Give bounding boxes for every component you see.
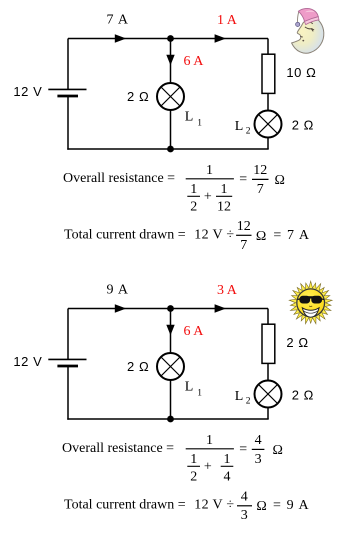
svg-text:1: 1: [206, 433, 213, 448]
current arrow 7 A: [115, 34, 126, 42]
svg-text:Ω: Ω: [275, 173, 285, 188]
svg-text:1: 1: [224, 452, 231, 467]
node A (top junction): [167, 35, 174, 42]
svg-text:= 7 A: = 7 A: [273, 228, 310, 243]
svg-text:1: 1: [221, 182, 228, 197]
wire right lower 2: [267, 408, 269, 420]
svg-text:=: =: [239, 442, 247, 457]
svg-text:Ω: Ω: [273, 443, 283, 458]
formula total current (bottom): [64, 489, 310, 523]
svg-text:7: 7: [257, 182, 264, 197]
label L1 (bottom circuit): [185, 380, 202, 399]
svg-text:2: 2: [246, 397, 251, 407]
svg-text:Total current drawn =: Total current drawn =: [64, 228, 186, 243]
lamp L2b (2 ohm): [255, 381, 282, 408]
svg-text:12: 12: [217, 200, 231, 215]
svg-text:3 A: 3 A: [217, 283, 238, 298]
svg-text:1: 1: [197, 389, 202, 399]
wire middle upper 2: [170, 309, 172, 354]
svg-text:2 Ω: 2 Ω: [292, 117, 314, 132]
svg-text:1: 1: [190, 182, 197, 197]
icon sun (day): [289, 281, 332, 324]
svg-text:2: 2: [246, 127, 251, 137]
lamp L2 (2 ohm): [255, 111, 282, 138]
svg-text:= 9 A: = 9 A: [273, 498, 310, 513]
svg-text:12: 12: [237, 219, 251, 234]
wire right middle (resistor to lamp L2): [267, 94, 269, 111]
current arrow 6 A (down): [166, 55, 174, 65]
wire top 2: [68, 308, 268, 310]
svg-text:10 Ω: 10 Ω: [286, 65, 316, 80]
wire right upper 2: [267, 309, 269, 325]
current arrow 9 A: [115, 304, 126, 312]
svg-text:7: 7: [240, 238, 247, 253]
svg-text:12 V: 12 V: [13, 354, 42, 369]
svg-text:12 V ÷: 12 V ÷: [194, 228, 234, 243]
battery B2 plate long: [48, 358, 86, 360]
svg-text:9 A: 9 A: [107, 283, 129, 298]
wire middle upper (node A to lamp L1): [170, 39, 172, 84]
svg-text:L: L: [235, 389, 244, 404]
wire bottom: [67, 148, 268, 150]
label L2: [235, 119, 251, 137]
svg-text:4: 4: [241, 489, 248, 504]
svg-text:6 A: 6 A: [184, 324, 205, 339]
svg-text:+: +: [204, 459, 212, 474]
resistor R2 2 ohm: [262, 324, 275, 363]
svg-text:L: L: [185, 380, 194, 395]
wire right upper (node A to resistor): [267, 39, 269, 55]
svg-text:Overall resistance =: Overall resistance =: [62, 441, 174, 456]
formula overall resistance (top): [63, 163, 285, 215]
svg-text:2 Ω: 2 Ω: [292, 387, 314, 402]
label L1: [185, 110, 202, 129]
svg-text:2 Ω: 2 Ω: [127, 89, 149, 104]
svg-text:1 A: 1 A: [217, 13, 238, 28]
svg-text:3: 3: [241, 508, 248, 523]
svg-text:4: 4: [224, 470, 231, 485]
wire left upper 2: [67, 309, 69, 360]
svg-text:6 A: 6 A: [184, 54, 205, 69]
svg-text:1: 1: [206, 163, 213, 178]
svg-text:+: +: [204, 189, 212, 204]
svg-text:Ω: Ω: [256, 229, 266, 244]
wire left lower: [67, 96, 69, 150]
wire top (battery + to node A): [68, 38, 268, 40]
svg-text:2: 2: [190, 200, 197, 215]
svg-text:3: 3: [255, 452, 262, 467]
current arrow 6 A (down, bottom circuit): [166, 325, 174, 335]
svg-text:L: L: [235, 119, 244, 134]
wire middle lower (L1 to node B): [170, 110, 172, 149]
node C (top junction): [167, 305, 174, 312]
svg-text:2: 2: [190, 470, 197, 485]
lamp L1 (2 ohm): [157, 83, 184, 110]
current arrow 1 A: [215, 34, 226, 42]
icon moon (night): [292, 8, 324, 53]
svg-text:L: L: [185, 110, 194, 125]
resistor R1 10 ohm: [262, 54, 275, 93]
battery B2 plate short: [57, 365, 78, 368]
svg-text:2 Ω: 2 Ω: [127, 359, 149, 374]
svg-text:1: 1: [190, 452, 197, 467]
wire bottom 2: [67, 418, 268, 420]
battery B1 plate short: [57, 95, 78, 98]
node B (bottom junction): [167, 146, 174, 153]
svg-text:=: =: [239, 172, 247, 187]
node D (bottom junction): [167, 416, 174, 423]
svg-text:7 A: 7 A: [107, 13, 129, 28]
svg-text:2 Ω: 2 Ω: [286, 335, 308, 350]
wire middle lower 2: [170, 380, 172, 419]
current arrow 3 A: [215, 304, 226, 312]
svg-text:12 V ÷: 12 V ÷: [194, 498, 234, 513]
svg-text:Overall resistance =: Overall resistance =: [63, 171, 175, 186]
lamp L1b (2 ohm): [157, 353, 184, 380]
label L2 (bottom circuit): [235, 389, 251, 407]
battery B1 plate long: [48, 88, 86, 90]
formula overall resistance (bottom): [62, 433, 283, 485]
svg-text:4: 4: [255, 433, 262, 448]
svg-text:1: 1: [197, 119, 202, 129]
wire right middle 2: [267, 364, 269, 381]
wire right lower (L2 to node B): [267, 138, 269, 150]
wire left upper: [67, 39, 69, 90]
formula total current (top): [64, 219, 310, 253]
svg-text:12: 12: [253, 163, 267, 178]
wire left lower 2: [67, 366, 69, 420]
svg-text:12 V: 12 V: [13, 84, 42, 99]
svg-text:Ω: Ω: [256, 499, 266, 514]
svg-text:Total current drawn =: Total current drawn =: [64, 498, 186, 513]
